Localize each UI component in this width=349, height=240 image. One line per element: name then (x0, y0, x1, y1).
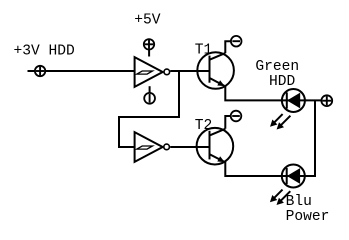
power terminal +5V plus above U1 (144, 39, 154, 56)
inverter U1 (Schmitt trigger) (135, 57, 170, 87)
LED D2 Blu Power (270, 165, 307, 206)
svg-text:Blu: Blu (286, 194, 312, 210)
svg-text:+3V HDD: +3V HDD (14, 44, 76, 60)
svg-text:+5V: +5V (134, 12, 161, 28)
wire U2 output to T2 base (170, 146, 209, 148)
svg-text:HDD: HDD (269, 74, 296, 90)
minus terminal T1 collector (231, 36, 242, 47)
transistor T2 (197, 128, 234, 165)
wire U1 output to T1 base (170, 70, 209, 72)
wire LED D1 to output plus terminal (305, 99, 322, 101)
wire T2 collector up to minus terminal (225, 116, 231, 129)
LED D1 Green HDD (270, 89, 307, 130)
transistor T1 (197, 52, 234, 89)
inverter U2 (Schmitt trigger) (135, 132, 170, 162)
wire feedback from U1 output down and left to U2 input (119, 71, 179, 147)
wire T2 emitter to LED D2 (225, 162, 281, 177)
wire T1 emitter to LED D1 (225, 85, 282, 100)
minus terminal below U1 (144, 86, 155, 104)
svg-text:Green: Green (255, 59, 299, 75)
minus terminal T2 collector (231, 111, 242, 122)
wire input net to inverter U1 (45, 70, 134, 72)
wire right rail down to LED D2 (305, 100, 315, 176)
wire T1 collector up to minus terminal (225, 41, 231, 53)
svg-text:Power: Power (286, 209, 330, 225)
terminal output plus (321, 95, 332, 106)
terminal +3V input plus (28, 66, 46, 76)
